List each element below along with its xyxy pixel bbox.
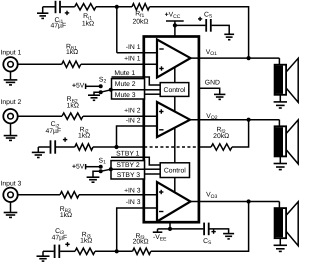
svg-text:CS: CS	[203, 238, 212, 246]
svg-text:Mute 2: Mute 2	[115, 81, 136, 88]
svg-text:20kΩ: 20kΩ	[213, 133, 229, 140]
wire GND	[199, 88, 220, 94]
svg-text:Input 1: Input 1	[1, 49, 22, 56]
wire -IN2	[117, 126, 158, 147]
wire feedback ch2 to Vo2	[232, 120, 249, 147]
wire STBY3 to control 2	[145, 173, 161, 175]
svg-text:-IN 2: -IN 2	[126, 118, 141, 125]
svg-text:+VCC: +VCC	[165, 12, 181, 20]
svg-text:47µF: 47µF	[52, 235, 68, 242]
svg-text:-IN 1: -IN 1	[126, 44, 141, 51]
svg-text:-VEE: -VEE	[153, 234, 167, 242]
svg-text:CS: CS	[204, 11, 213, 19]
ground Cs bottom	[223, 234, 234, 239]
svg-text:Mute 1: Mute 1	[114, 70, 135, 77]
wire feedback ch1 to Vo1	[150, 7, 249, 58]
capacitor Ci1 47uF	[50, 1, 69, 30]
node junction Ri1/Rf1	[115, 5, 119, 9]
wire -IN3	[117, 208, 157, 251]
svg-text:1kΩ: 1kΩ	[80, 237, 92, 244]
wire to -IN1	[116, 7, 118, 53]
power +Vcc	[165, 12, 184, 37]
svg-text:VO3: VO3	[206, 192, 217, 200]
wire	[38, 146, 49, 148]
ground ch3 feedback	[37, 251, 50, 261]
svg-text:+5V: +5V	[72, 83, 85, 90]
ground Cs top	[224, 34, 234, 39]
wire STBY2 bus to control 2	[145, 168, 161, 170]
resistor Ri3 1k	[75, 231, 95, 254]
svg-text:1kΩ: 1kΩ	[67, 103, 79, 110]
wire	[18, 115, 62, 117]
svg-text:-IN 3: -IN 3	[126, 199, 141, 206]
ground jack 2	[4, 123, 18, 140]
ground jack 1	[4, 72, 18, 85]
supply +5V (mute)	[72, 83, 101, 90]
wire	[212, 25, 230, 34]
input jack 1	[1, 49, 22, 71]
svg-text:+IN 1: +IN 1	[124, 56, 141, 63]
dashed feedback wire crossing IC	[144, 146, 199, 148]
resistor Rf1 20k	[132, 4, 150, 26]
svg-text:VO2: VO2	[206, 113, 217, 121]
svg-text:STBY 2: STBY 2	[116, 162, 140, 169]
op-amp A3	[157, 182, 191, 222]
resistor RB3 1k	[60, 192, 79, 220]
capacitor Cs (bottom supply bypass)	[203, 223, 216, 246]
svg-text:+5V: +5V	[72, 163, 85, 170]
wire +IN2	[83, 115, 157, 117]
wire -IN1	[117, 52, 157, 54]
wire Vo2	[190, 119, 279, 121]
resistor Rf3 20k	[133, 233, 151, 255]
capacitor Ci2 47uF	[45, 121, 67, 154]
wire	[95, 250, 133, 252]
wire Mute2 bus to control 1	[145, 89, 161, 91]
node Vo1	[247, 56, 251, 60]
svg-text:20kΩ: 20kΩ	[133, 238, 149, 245]
svg-text:GND: GND	[205, 79, 220, 86]
node Vo2	[247, 118, 251, 122]
wire	[96, 6, 132, 8]
capacitor Ci3 47uF	[52, 228, 70, 258]
wire VEE rail	[170, 228, 203, 230]
wire +IN1	[81, 63, 157, 65]
svg-text:1kΩ: 1kΩ	[60, 212, 72, 219]
op-amp A2	[157, 102, 190, 137]
control block 2	[160, 163, 189, 178]
svg-text:S1: S1	[99, 157, 107, 165]
resistor Rf2 20k	[211, 127, 232, 151]
svg-text:Mute 3: Mute 3	[115, 92, 136, 99]
svg-text:+IN 2: +IN 2	[124, 107, 141, 114]
svg-text:STBY 3: STBY 3	[117, 172, 141, 179]
ground ch2 feedback	[32, 147, 45, 158]
svg-text:+IN 3: +IN 3	[124, 188, 141, 195]
input jack 3	[1, 181, 22, 203]
wire	[93, 146, 144, 148]
svg-text:Control: Control	[164, 87, 186, 94]
speaker 1	[275, 58, 299, 102]
svg-text:1kΩ: 1kΩ	[78, 133, 90, 140]
wire +IN3	[79, 194, 157, 196]
wire Mute 1 with jog to control 1	[112, 77, 161, 85]
switch S1	[99, 157, 113, 173]
resistor RB2 1k	[62, 96, 83, 119]
node junction Ri2/-IN2	[114, 145, 118, 149]
svg-text:VO1: VO1	[206, 49, 217, 57]
wire feedback ch3 to Vo3	[151, 202, 249, 252]
ground S2	[88, 92, 101, 100]
pin group box Mute 2 / Mute 3	[112, 79, 145, 99]
svg-text:1kΩ: 1kΩ	[82, 21, 94, 28]
svg-text:S2: S2	[99, 77, 107, 85]
control block 1	[160, 83, 189, 97]
ground S1	[87, 171, 101, 182]
speaker 3	[275, 202, 299, 246]
supply +5V (standby)	[72, 163, 101, 170]
IC amplifier block U1	[144, 37, 199, 223]
capacitor Cs (top supply bypass)	[198, 11, 213, 31]
svg-text:20kΩ: 20kΩ	[132, 18, 148, 25]
wire	[60, 250, 75, 252]
wire Mute3 to control 1	[145, 93, 161, 95]
ground speaker 2	[274, 156, 287, 169]
wire control links	[174, 68, 176, 193]
resistor Ri1 1k	[75, 4, 96, 28]
op-amp A1	[157, 40, 191, 78]
svg-text:47µF: 47µF	[50, 23, 66, 30]
ground jack 3	[4, 202, 18, 217]
power -VEE	[153, 222, 172, 242]
wire	[61, 6, 75, 8]
wire	[43, 6, 55, 8]
wire Vcc rail	[175, 24, 206, 26]
wire STBY 1 with jog to control 2	[111, 157, 160, 165]
resistor RB1 1k	[62, 43, 81, 67]
svg-text:1kΩ: 1kΩ	[66, 49, 78, 56]
input jack 2	[1, 99, 22, 124]
svg-text:47µF: 47µF	[45, 128, 61, 135]
wire	[56, 146, 75, 148]
speaker 2	[275, 120, 299, 164]
node Vo3	[247, 199, 251, 203]
ground speaker 3	[274, 238, 287, 251]
wire Vo3	[191, 201, 280, 203]
ground speaker 1	[274, 95, 287, 108]
wire	[18, 63, 62, 65]
resistor Ri2 1k	[75, 126, 93, 150]
svg-text:Input 3: Input 3	[1, 181, 22, 188]
wire	[43, 250, 54, 252]
wire	[210, 229, 229, 234]
wire	[18, 194, 60, 196]
ground GND pin	[214, 94, 225, 99]
svg-text:Control: Control	[164, 168, 186, 175]
pin group box STBY 2 / STBY 3	[111, 161, 145, 179]
wire	[199, 146, 211, 148]
ground ch1 feedback	[37, 7, 48, 19]
node junction Ri3/Rf3	[115, 249, 119, 253]
wire Vo1	[191, 57, 280, 59]
svg-text:Input 2: Input 2	[1, 99, 22, 106]
switch S2	[99, 77, 113, 95]
